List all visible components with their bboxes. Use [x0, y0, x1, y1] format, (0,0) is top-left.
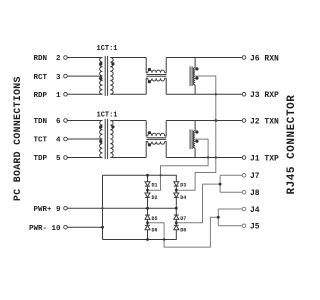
- crossing at J1 rail: [215, 156, 217, 158]
- svg-text:TDP 5: TDP 5: [33, 155, 61, 163]
- crossing PWR+ bus over power loop wire: [101, 207, 103, 209]
- svg-text:J3 RXP: J3 RXP: [250, 91, 279, 100]
- T1 transformer primary winding: [100, 58, 103, 95]
- pin J4 terminal circle and label: [242, 207, 246, 211]
- wire RDP to transformer T1: [67, 93, 102, 95]
- crossing at J3 rail: [215, 93, 217, 95]
- svg-text:D8: D8: [180, 227, 186, 233]
- wire bottom rail to J4/J5 mid return: [164, 217, 217, 247]
- wire RDN to transformer T1: [67, 57, 102, 59]
- junction at J2 rail: [214, 119, 217, 122]
- pin PWR+ terminal circle: [64, 206, 68, 210]
- L2 center-tap choke polarity dots: [195, 67, 198, 70]
- wire TDP to transformer T2: [67, 157, 102, 159]
- diode D3: [174, 182, 179, 186]
- junction D5-D6: [146, 221, 149, 224]
- svg-text:D1: D1: [152, 183, 158, 189]
- svg-text:PWR- 10: PWR- 10: [29, 225, 61, 233]
- pin TDN terminal circle: [64, 119, 68, 123]
- svg-text:TCT 4: TCT 4: [33, 137, 61, 145]
- wire TX bottom rail to J1: [166, 157, 242, 159]
- junction bus-left chain: [146, 207, 149, 210]
- wire T2 secondary bottom rail to choke: [110, 157, 146, 159]
- pin TCT terminal circle: [64, 137, 68, 141]
- L1 common-mode choke polarity dots: [148, 68, 151, 71]
- pin J8 terminal circle and label: [242, 191, 246, 195]
- wire TX center tap to D1/D2 junction: [149, 139, 208, 190]
- right diode chain wire segments: [175, 186, 177, 234]
- L1 common-mode choke top winding: [146, 58, 165, 73]
- junction top rail / D1: [146, 174, 149, 177]
- wire D7/D8 junction to J7/J8 mid: [178, 184, 219, 223]
- svg-text:J1 TXP: J1 TXP: [250, 154, 279, 163]
- svg-text:J8: J8: [250, 189, 260, 198]
- svg-text:D6: D6: [152, 227, 158, 233]
- junction bottom rail / D6: [146, 238, 149, 241]
- wire PWR- to power loop: [67, 226, 102, 228]
- junction D7-D8: [175, 221, 178, 224]
- svg-text:D2: D2: [152, 195, 158, 201]
- wire T1 secondary top rail to choke: [110, 57, 146, 59]
- svg-text:D3: D3: [180, 183, 186, 189]
- T2 transformer secondary winding: [110, 121, 113, 158]
- svg-text:RCT 3: RCT 3: [33, 74, 61, 82]
- pin J2 terminal circle and label: [242, 119, 246, 123]
- junction PWR-: [101, 226, 104, 229]
- wire RX top rail to J6: [166, 57, 242, 59]
- pin J7 terminal circle and label: [242, 174, 246, 178]
- pin J5 terminal circle and label: [242, 224, 246, 228]
- junction bus-right chain: [175, 207, 178, 210]
- crossing TX tap at J1 rail: [207, 156, 209, 158]
- T2 transformer primary winding: [100, 121, 103, 158]
- svg-text:J4: J4: [250, 206, 260, 215]
- junction bottom rail / J4 J5 return: [163, 238, 165, 240]
- diode D5: [145, 215, 150, 219]
- svg-text:J7: J7: [250, 172, 260, 181]
- svg-text:D5: D5: [152, 216, 158, 222]
- wire RX bottom rail to J3: [166, 93, 242, 95]
- J7/J8 bracket: [220, 175, 242, 192]
- wire TDN to transformer T2: [67, 120, 102, 122]
- pin PWR- terminal circle: [64, 225, 68, 229]
- L3 common-mode choke core: [147, 138, 167, 140]
- wire T2 secondary top rail to choke: [110, 120, 146, 122]
- svg-text:RDN 2: RDN 2: [33, 55, 61, 63]
- wire RCT to transformer T1 center tap: [67, 75, 102, 77]
- diode array top rail: [103, 175, 177, 181]
- crossing tap at top rail: [159, 174, 161, 176]
- L4 center-tap choke core: [190, 130, 192, 150]
- svg-text:RDP 1: RDP 1: [33, 92, 61, 100]
- diode D1: [145, 182, 150, 186]
- junction D1-D2: [146, 189, 149, 192]
- left diode chain wire segments: [147, 175, 149, 239]
- wire RX center tap to D3/D4 junction: [178, 76, 216, 190]
- svg-text:J2 TXN: J2 TXN: [250, 117, 279, 126]
- junction J7/J8 mid: [219, 183, 222, 186]
- diode D7: [174, 215, 179, 219]
- junction J4/J5 mid: [217, 216, 220, 219]
- L2 center-tap choke winding: [193, 58, 195, 95]
- pin RDP terminal circle: [64, 93, 68, 97]
- svg-text:D4: D4: [180, 195, 186, 201]
- pin TDP terminal circle: [64, 156, 68, 160]
- L4 center-tap choke polarity dots: [195, 130, 198, 133]
- diode D8: [174, 225, 179, 229]
- diode D6: [145, 225, 150, 229]
- J4/J5 bracket: [218, 209, 242, 226]
- L3 common-mode choke polarity dots: [148, 131, 151, 134]
- svg-text:J6 RXN: J6 RXN: [250, 54, 279, 63]
- svg-text:1CT:1: 1CT:1: [97, 45, 118, 53]
- pin RDN terminal circle: [64, 56, 68, 60]
- svg-text:1CT:1: 1CT:1: [97, 111, 118, 119]
- junction D3-D4: [175, 189, 178, 192]
- wire T1 secondary bottom rail to choke: [110, 93, 146, 95]
- diode D2: [145, 193, 150, 197]
- pin J6 terminal circle and label: [242, 56, 246, 60]
- pin RCT terminal circle: [64, 74, 68, 78]
- L4 center-tap choke winding: [193, 121, 195, 158]
- power loop left vertical wire: [102, 175, 104, 239]
- diode D4: [174, 193, 179, 197]
- wire PWR+ to diode bus: [67, 207, 176, 209]
- T1 transformer core: [105, 56, 107, 96]
- svg-text:RJ45 CONNECTOR: RJ45 CONNECTOR: [286, 95, 298, 195]
- L3 common-mode choke top winding: [146, 121, 165, 137]
- L1 common-mode choke bottom winding: [146, 78, 165, 94]
- wire TX top rail to J2: [166, 120, 242, 122]
- L2 center-tap choke core: [190, 66, 192, 86]
- pin J3 terminal circle and label: [242, 93, 246, 97]
- T2 transformer core: [105, 119, 107, 159]
- wire D5/D6 junction to bottom rail: [149, 223, 164, 240]
- T2 transformer polarity dots: [99, 125, 102, 128]
- svg-text:PC BOARD CONNECTIONS: PC BOARD CONNECTIONS: [12, 76, 23, 201]
- T1 transformer polarity dots: [99, 62, 102, 65]
- T1 transformer secondary winding: [110, 58, 113, 95]
- diode array bottom rail: [103, 234, 177, 239]
- svg-text:TDN 6: TDN 6: [33, 118, 61, 126]
- svg-text:D7: D7: [180, 216, 186, 222]
- L1 common-mode choke core: [147, 75, 167, 77]
- svg-text:J5: J5: [250, 223, 260, 232]
- pin J1 terminal circle and label: [242, 156, 246, 160]
- L3 common-mode choke bottom winding: [146, 142, 165, 158]
- wire TCT to transformer T2 center tap: [67, 138, 102, 140]
- svg-text:PWR+ 9: PWR+ 9: [33, 206, 61, 214]
